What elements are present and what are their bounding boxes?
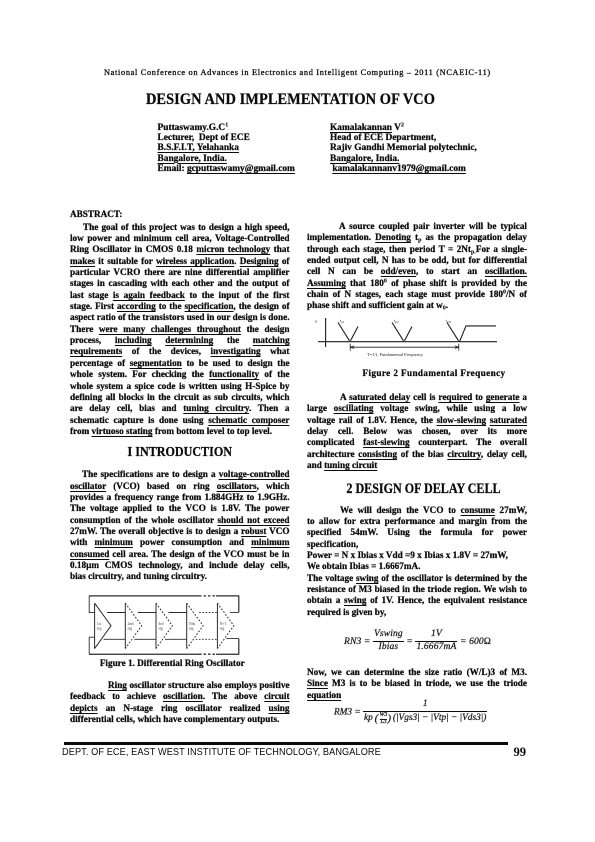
paragraph 1 — [307, 221, 527, 312]
intro paragraph — [70, 469, 290, 582]
footer text — [62, 746, 381, 758]
author right — [330, 123, 477, 174]
paragraph 4 — [307, 667, 527, 701]
amplifier stage 5 diagonals — [217, 603, 233, 648]
ABSTRACT heading — [70, 209, 122, 219]
vertical axis — [325, 318, 327, 347]
transition mark 2 — [392, 323, 412, 341]
svg-text:v: v — [315, 320, 318, 325]
abstract paragraph — [70, 222, 290, 438]
amplifier stage 4 diagonals — [187, 603, 203, 648]
figure 2 caption — [363, 368, 506, 378]
horizontal axis — [318, 341, 497, 343]
wire: right loop vertical — [238, 596, 240, 654]
title — [26, 91, 555, 109]
figure 2: fundamental frequency waveform — [314, 315, 510, 360]
paragraph 2 — [307, 392, 527, 471]
amplifier stage 1 vertical edge — [94, 603, 96, 648]
equation RN3 = Vswing/Ibias = 1V/1.6667mA = 600 ohm — [344, 636, 373, 646]
RIGHT COLUMN — [307, 0, 527, 1]
footer rule — [64, 742, 508, 745]
svg-text:stg: stg — [97, 626, 102, 631]
section 2 heading — [324, 481, 522, 498]
equation RN3 — [344, 630, 491, 653]
page number — [514, 745, 527, 760]
stage1 output wires — [104, 613, 126, 640]
period arrowheads — [350, 346, 459, 349]
rising edge to high level — [460, 326, 497, 342]
transition mark N and rising edge — [447, 323, 459, 341]
stage 1 input stubs — [89, 613, 95, 638]
stage4 output wires — [196, 613, 218, 640]
stage3 output wires — [165, 613, 187, 640]
I INTRODUCTION heading — [82, 444, 278, 460]
svg-text:stg: stg — [189, 626, 194, 631]
amplifier stage 3 diagonals — [156, 603, 172, 648]
amplifier stage 2 diagonals — [125, 603, 141, 648]
svg-text:tp2: tp2 — [394, 318, 399, 324]
figure 1: differential ring oscillator schematic — [84, 592, 270, 660]
wire: top feedback dashed gap — [199, 595, 216, 597]
wire: bottom feedback line — [89, 653, 239, 655]
svg-text:tp1: tp1 — [340, 318, 345, 324]
svg-text:stg: stg — [220, 626, 225, 631]
equation RM3 — [334, 699, 487, 726]
amplifier stage 2 vertical edge — [124, 603, 126, 648]
amplifier stage 3 vertical edge — [155, 603, 157, 648]
stage2 output wires — [134, 613, 156, 640]
svg-text:stg: stg — [128, 626, 133, 631]
conference header — [104, 68, 495, 77]
svg-text:stg: stg — [158, 626, 163, 631]
paragraph 3 — [307, 505, 527, 618]
svg-text:tpN: tpN — [446, 318, 452, 324]
amplifier stage 5 vertical edge — [216, 603, 218, 648]
figure 1 caption — [63, 658, 283, 668]
period arrow line — [350, 346, 459, 348]
transition mark 1 — [338, 323, 358, 341]
author left — [158, 123, 295, 174]
wire: top feedback line — [89, 595, 239, 597]
stage5 output wires — [226, 612, 238, 638]
wire: left loop verticals — [88, 596, 90, 654]
wire: bottom feedback dashed gap — [199, 653, 216, 655]
amplifier stage 1 diagonals — [95, 603, 111, 648]
closing paragraph — [70, 680, 290, 725]
equation RM3 = 1 / (kp(W3/L3)(|Vgs3|-|Vtp|-|Vds3|)) — [334, 707, 363, 717]
period end ticks — [350, 344, 459, 351]
amplifier stage 4 vertical edge — [186, 603, 188, 648]
LEFT COLUMN — [70, 0, 290, 1]
svg-text:T=1/f, Fundamental Frequency: T=1/f, Fundamental Frequency — [367, 352, 424, 358]
